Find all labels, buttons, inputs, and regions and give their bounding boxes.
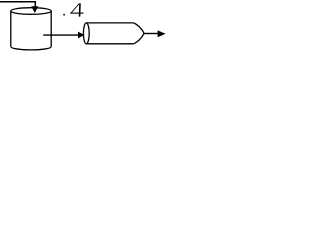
stray dot (63, 14, 65, 16)
outflow wire (43, 34, 79, 36)
drum D1 (horizontal cylinder) (83, 23, 144, 44)
inflow arrowhead (31, 6, 38, 13)
tank T1 (vertical cylinder) (11, 8, 51, 50)
background (0, 0, 171, 59)
exit arrowhead (158, 30, 166, 37)
exit wire (144, 33, 159, 35)
outflow arrowhead (78, 32, 84, 39)
label 4 (70, 3, 83, 16)
inflow wire (top horizontal + drop) (0, 2, 35, 8)
